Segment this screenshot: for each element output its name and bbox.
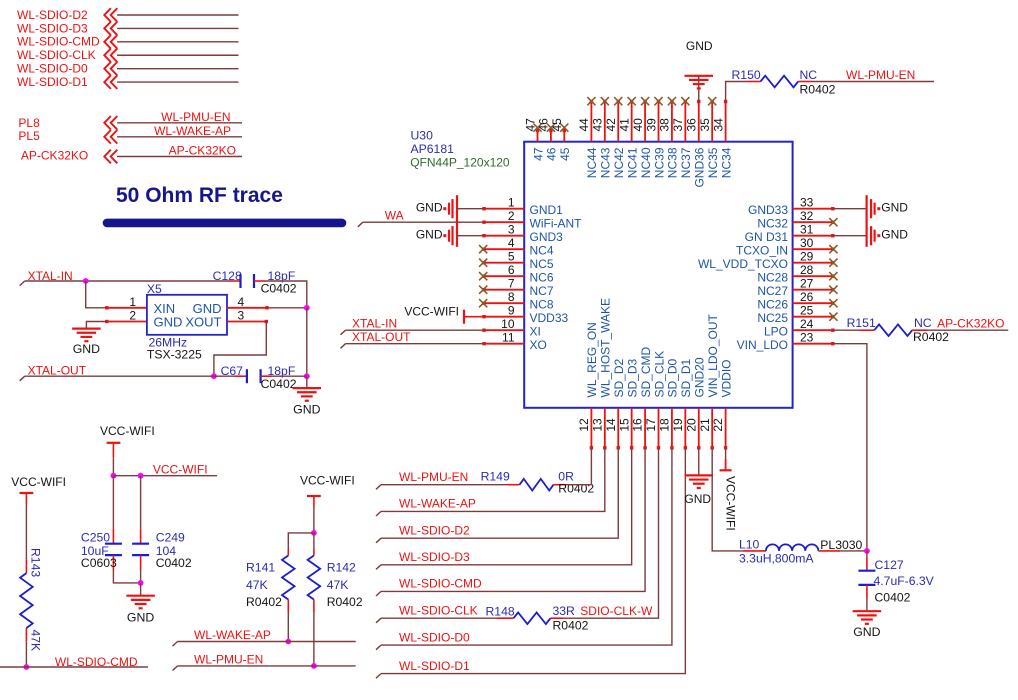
no-connect X on pin 42 [614, 97, 622, 105]
wire WA to pin 2 (WiFi-ANT) [358, 222, 363, 227]
off-page connector chevrons WL-SDIO-CLK [104, 48, 111, 62]
no-connect X on pin 6 [479, 272, 487, 280]
junction node VCC-WIFI / C249 [138, 473, 144, 479]
off-page connector chevrons WL-SDIO-D0 [104, 62, 111, 76]
junction node R141 / WL-WAKE-AP [285, 639, 291, 645]
svg-text:GND: GND [73, 342, 100, 356]
X5 pin 2 stub [107, 321, 147, 323]
svg-text:43: 43 [591, 118, 605, 132]
svg-text:NC: NC [914, 316, 932, 330]
power symbol VCC-WIFI (bar) [107, 442, 121, 444]
svg-text:35: 35 [698, 118, 712, 132]
junction node R141/R142 top [311, 530, 317, 536]
svg-text:19: 19 [671, 418, 685, 432]
svg-text:WL-SDIO-D1: WL-SDIO-D1 [17, 75, 88, 89]
svg-text:NC35: NC35 [706, 147, 720, 178]
U30 pin 2 WiFi-ANT stub [484, 221, 524, 223]
wire pin 20 to ground [698, 448, 700, 476]
off-page connector chevrons WL-SDIO-D1 [104, 75, 111, 89]
svg-text:40: 40 [631, 118, 645, 132]
svg-text:VCC-WIFI: VCC-WIFI [724, 476, 738, 531]
wire R142 to WL-PMU-EN [313, 612, 315, 666]
svg-text:22: 22 [711, 418, 725, 432]
ground symbol at X5 pin 2 [72, 328, 101, 330]
svg-text:WL-SDIO-D1: WL-SDIO-D1 [399, 659, 470, 673]
U30 pin 43 NC43 stub [604, 102, 606, 142]
svg-text:47K: 47K [29, 630, 43, 652]
wire WL-SDIO-D0 to U30 [376, 645, 381, 650]
resistor R148 [497, 617, 514, 619]
wire pin 24 to R151 [833, 329, 860, 331]
svg-text:WL_REG_ON: WL_REG_ON [585, 322, 599, 397]
svg-text:3: 3 [508, 223, 515, 237]
U30 pin 11 XO stub [484, 343, 524, 345]
U30 pin 26 NC26 stub [793, 302, 833, 304]
wire WL-WAKE-AP from PL5 [117, 136, 242, 138]
no-connect X on pin 44 [587, 97, 595, 105]
svg-text:3.3uH,800mA: 3.3uH,800mA [739, 551, 814, 565]
svg-text:23: 23 [800, 331, 814, 345]
svg-text:C0402: C0402 [261, 377, 297, 391]
U30 pin 28 NC28 stub [793, 275, 833, 277]
wire power down to junction [112, 457, 114, 476]
X5 pin 1 stub [107, 307, 147, 309]
no-connect X on pin 7 [479, 286, 487, 294]
U30 pin 13 WL_HOST_WAKE stub [604, 408, 606, 448]
junction node XTAL-OUT / pin3 [211, 373, 217, 379]
svg-text:29: 29 [800, 250, 814, 264]
no-connect X on pin 39 [654, 97, 662, 105]
svg-text:WL_VDD_TCXO: WL_VDD_TCXO [698, 257, 788, 271]
junction node XTAL-IN [83, 278, 89, 284]
wire AP-CK32KO [117, 156, 242, 158]
svg-text:24: 24 [800, 317, 814, 331]
ground symbol below C67 rail [293, 387, 322, 389]
wire WL-SDIO-D2 to U30 [376, 538, 381, 543]
svg-text:1: 1 [129, 295, 136, 309]
svg-text:C0402: C0402 [875, 590, 911, 604]
U30 pin 25 NC25 stub [793, 316, 833, 318]
capacitor C250 [112, 476, 114, 529]
U30 pin 19 SD_D1 stub [684, 408, 686, 448]
svg-text:NC39: NC39 [652, 147, 666, 178]
svg-text:12: 12 [577, 418, 591, 432]
no-connect X on pin 5 [479, 259, 487, 267]
resistor R142 [313, 533, 315, 549]
svg-text:WiFi-ANT: WiFi-ANT [530, 217, 583, 231]
svg-text:WL-PMU-EN: WL-PMU-EN [846, 68, 915, 82]
power symbol VCC-WIFI at pin 22 [720, 469, 732, 471]
U30 pin 37 NC37 stub [684, 102, 686, 142]
no-connect X on pin 30 [829, 245, 837, 253]
svg-text:WL-WAKE-AP: WL-WAKE-AP [154, 124, 231, 138]
wire XTAL-IN horizontal [20, 281, 25, 286]
no-connect X on pin 43 [601, 97, 609, 105]
svg-text:2: 2 [508, 209, 515, 223]
no-connect X on pin 32 [829, 218, 837, 226]
wire WL-SDIO-CMD [117, 41, 238, 43]
svg-text:50 Ohm RF trace: 50 Ohm RF trace [116, 184, 283, 207]
svg-text:GND3: GND3 [530, 230, 564, 244]
svg-text:R149: R149 [481, 470, 510, 484]
no-connect X on pin 45 [560, 124, 568, 132]
svg-text:NC38: NC38 [666, 147, 680, 178]
svg-text:47K: 47K [327, 578, 349, 592]
shield ground symbol at pins 1 and 3 [456, 195, 458, 247]
wire to ground [140, 583, 142, 596]
wire XTAL-IN to pin 10 [341, 330, 346, 335]
wire R150 to WL-PMU-EN [812, 81, 934, 83]
svg-text:VCC-WIFI: VCC-WIFI [11, 475, 66, 489]
svg-text:XTAL-IN: XTAL-IN [352, 316, 397, 330]
svg-text:VIN_LDO_OUT: VIN_LDO_OUT [706, 313, 720, 397]
svg-text:PL5: PL5 [18, 129, 40, 143]
wire from XTAL-IN junction down to X5 pin 1 [86, 281, 107, 308]
U30 pin 12 WL_REG_ON stub [590, 408, 592, 448]
svg-text:14: 14 [604, 418, 618, 432]
svg-text:R148: R148 [486, 604, 515, 618]
U30 pin 36 GND36 stub [698, 102, 700, 142]
svg-text:10: 10 [501, 317, 515, 331]
U30 pin 34 NC34 stub [725, 102, 727, 142]
svg-text:VCC-WIFI: VCC-WIFI [153, 463, 208, 477]
svg-text:AP-CK32KO: AP-CK32KO [169, 144, 236, 158]
svg-text:R0402: R0402 [553, 618, 589, 632]
wire pin 23 to VIN rail [833, 344, 867, 551]
svg-text:NC6: NC6 [530, 271, 554, 285]
U30 pin 22 VDDIO stub [725, 408, 727, 448]
wire XTAL-OUT horizontal [20, 376, 25, 381]
svg-text:WL-PMU-EN: WL-PMU-EN [161, 110, 230, 124]
svg-text:NC41: NC41 [625, 147, 639, 178]
U30 pin 45 stub [563, 131, 565, 142]
wire WL-SDIO-CLK [117, 54, 238, 56]
svg-text:16: 16 [631, 418, 645, 432]
wire R148 to pin 17 [564, 448, 659, 618]
no-connect X on pin 8 [479, 299, 487, 307]
svg-text:NC5: NC5 [530, 257, 554, 271]
U30 pin 46 stub [550, 131, 552, 142]
svg-text:NC34: NC34 [719, 147, 733, 178]
svg-text:WL-PMU-EN: WL-PMU-EN [194, 653, 263, 667]
svg-text:WL-WAKE-AP: WL-WAKE-AP [399, 497, 476, 511]
U30 pin 9 VDD33 stub [484, 316, 524, 318]
svg-text:15: 15 [617, 418, 631, 432]
IC U30 body [524, 142, 792, 408]
U30 pin 35 NC35 stub [711, 102, 713, 142]
wire junction to R141 [288, 533, 314, 549]
U30 pin 15 SD_D3 stub [631, 408, 633, 448]
svg-text:C128: C128 [213, 269, 242, 283]
svg-text:XI: XI [530, 325, 541, 339]
svg-text:GND: GND [416, 227, 443, 241]
wire WL-WAKE-AP to U30 [376, 511, 381, 516]
svg-text:GND: GND [686, 39, 713, 53]
svg-text:R151: R151 [847, 316, 876, 330]
svg-text:NC37: NC37 [679, 147, 693, 178]
wire R149 to pin 12 [566, 448, 591, 485]
svg-text:WL-WAKE-AP: WL-WAKE-AP [194, 628, 271, 642]
svg-text:C127: C127 [875, 558, 904, 572]
svg-text:NC8: NC8 [530, 298, 554, 312]
svg-text:45: 45 [550, 118, 564, 132]
svg-text:U30: U30 [411, 129, 434, 143]
X5 pin 4 stub [227, 307, 267, 309]
U30 pin 47 stub [537, 131, 539, 142]
svg-text:R0402: R0402 [246, 595, 282, 609]
svg-text:LPO: LPO [764, 325, 788, 339]
svg-text:NC28: NC28 [757, 271, 788, 285]
junction node pin4 rail [304, 305, 310, 311]
ground symbol below C127 [853, 610, 882, 612]
svg-text:C249: C249 [156, 531, 185, 545]
svg-text:GND: GND [853, 625, 880, 639]
svg-text:GND: GND [881, 227, 908, 241]
svg-text:13: 13 [590, 418, 604, 432]
svg-text:WL-SDIO-CMD: WL-SDIO-CMD [55, 655, 138, 669]
svg-text:25: 25 [800, 304, 814, 318]
wire WL-SDIO-CMD to U30 [376, 591, 381, 596]
wire WL-WAKE-AP (left segment) [173, 642, 178, 647]
wire power to R143 [25, 505, 27, 560]
wire pin 1 to shield ground [457, 208, 484, 210]
U30 pin 10 XI stub [484, 329, 524, 331]
off-page connector chevrons WL-SDIO-D3 [104, 22, 111, 36]
U30 pin 21 VIN_LDO_OUT stub [711, 408, 713, 448]
svg-text:47: 47 [523, 118, 537, 132]
no-connect X on pin 29 [829, 259, 837, 267]
U30 pin 29 WL_VDD_TCXO stub [793, 262, 833, 264]
svg-text:47K: 47K [246, 578, 268, 592]
svg-text:31: 31 [800, 223, 814, 237]
svg-text:42: 42 [604, 118, 618, 132]
svg-text:GND: GND [127, 611, 154, 625]
svg-text:20: 20 [684, 418, 698, 432]
wire pin 21 down to L10 [712, 448, 743, 551]
U30 pin 16 SD_CMD stub [644, 408, 646, 448]
wire vertical rail pin4 to C67 node [306, 308, 308, 376]
svg-text:VDDIO: VDDIO [719, 359, 733, 397]
svg-text:WL-SDIO-CLK: WL-SDIO-CLK [399, 604, 478, 618]
svg-text:GND: GND [416, 200, 443, 214]
U30 pin 6 NC6 stub [484, 275, 524, 277]
svg-text:NC42: NC42 [612, 147, 626, 178]
svg-text:33R: 33R [553, 604, 576, 618]
no-connect X on pin 38 [668, 97, 676, 105]
no-connect X on pin 35 [708, 97, 716, 105]
wire pin 33 to shield ground [833, 208, 867, 210]
wire pin 22 to power [725, 448, 727, 459]
svg-text:47: 47 [531, 147, 545, 161]
svg-text:C250: C250 [81, 531, 110, 545]
svg-text:NC40: NC40 [639, 147, 653, 178]
svg-text:R141: R141 [246, 561, 275, 575]
svg-text:VDD33: VDD33 [530, 311, 569, 325]
svg-text:38: 38 [658, 118, 672, 132]
wire XTAL-OUT to pin 11 [341, 344, 346, 349]
wire WL-SDIO-D0 [117, 68, 238, 70]
svg-text:WL-SDIO-CMD: WL-SDIO-CMD [399, 577, 482, 591]
svg-text:VCC-WIFI: VCC-WIFI [100, 424, 155, 438]
svg-text:AP-CK32KO: AP-CK32KO [937, 316, 1004, 330]
svg-text:GND20: GND20 [693, 357, 707, 397]
wire WL-SDIO-D3 [117, 27, 238, 29]
wire pin 34 up to R150 [726, 82, 746, 102]
svg-text:SDIO-CLK-W: SDIO-CLK-W [580, 604, 653, 618]
svg-text:X5: X5 [147, 282, 162, 296]
svg-text:SD_D0: SD_D0 [666, 358, 680, 397]
svg-text:VCC-WIFI: VCC-WIFI [300, 473, 355, 487]
U30 pin 39 NC39 stub [658, 102, 660, 142]
U30 pin 30 TCXO_IN stub [793, 248, 833, 250]
wire WL-PMU-EN (left segment) [173, 666, 178, 671]
svg-text:18: 18 [658, 418, 672, 432]
svg-text:C67: C67 [221, 364, 244, 378]
svg-text:L10: L10 [739, 537, 760, 551]
wire pin 31 to shield ground [833, 235, 867, 237]
junction node R143 / WL-SDIO-CMD [24, 664, 30, 670]
svg-text:WL-SDIO-D0: WL-SDIO-D0 [17, 62, 88, 76]
svg-text:GN D31: GN D31 [745, 230, 789, 244]
svg-text:SD_D2: SD_D2 [612, 358, 626, 397]
svg-text:R0402: R0402 [327, 595, 363, 609]
svg-text:NC44: NC44 [585, 147, 599, 178]
svg-text:17: 17 [644, 418, 658, 432]
off-page connector chevrons PL8 [104, 116, 111, 130]
off-page connector chevrons AP-CK32KO [104, 150, 111, 164]
svg-text:C0603: C0603 [81, 556, 117, 570]
U30 pin 14 SD_D2 stub [617, 408, 619, 448]
no-connect X on pin 46 [547, 124, 555, 132]
wire WL-PMU-EN left part [376, 485, 381, 490]
power symbol VCC-WIFI R143 [20, 492, 34, 494]
wire R141 to WL-WAKE-AP [287, 612, 289, 642]
ground symbol below C250/C249 [126, 595, 155, 597]
wire VCC-WIFI horizontal [113, 475, 217, 477]
svg-text:46: 46 [545, 147, 559, 161]
U30 pin 41 NC41 stub [631, 102, 633, 142]
svg-text:30: 30 [800, 236, 814, 250]
U30 pin 33 GND33 stub [793, 208, 833, 210]
resistor R150 [746, 81, 761, 83]
svg-text:8: 8 [508, 290, 515, 304]
svg-text:C0402: C0402 [261, 282, 297, 296]
svg-text:1: 1 [508, 196, 515, 210]
wire R151 to AP-CK32KO [928, 329, 1008, 331]
svg-text:21: 21 [698, 418, 712, 432]
svg-text:GND: GND [881, 200, 908, 214]
svg-text:R0402: R0402 [913, 330, 949, 344]
svg-text:QFN44P_120x120: QFN44P_120x120 [410, 156, 510, 170]
no-connect X on pin 37 [681, 97, 689, 105]
capacitor C128 [229, 280, 241, 282]
ground symbol below pin 20 [685, 474, 714, 476]
resistor R149 [507, 484, 520, 486]
no-connect X on pin 27 [829, 286, 837, 294]
no-connect X on pin 40 [641, 97, 649, 105]
svg-text:NC26: NC26 [757, 298, 788, 312]
U30 pin 7 NC7 stub [484, 289, 524, 291]
resistor R151 [860, 329, 875, 331]
svg-text:GND: GND [293, 403, 320, 417]
wire X5 pin 4 to C128 net [267, 307, 307, 309]
svg-text:WL-SDIO-CMD: WL-SDIO-CMD [17, 35, 100, 49]
svg-text:WL-SDIO-D2: WL-SDIO-D2 [17, 8, 88, 22]
svg-text:NC43: NC43 [599, 147, 613, 178]
U30 pin 38 NC38 stub [671, 102, 673, 142]
no-connect X on pin 26 [829, 299, 837, 307]
svg-text:R0402: R0402 [800, 82, 836, 96]
U30 pin 23 VIN_LDO stub [793, 343, 833, 345]
svg-text:NC32: NC32 [757, 217, 788, 231]
wire WL-PMU-EN from PL8 [117, 122, 242, 124]
wire R143 to WL-SDIO-CMD [25, 642, 27, 667]
wire WL-SDIO-D1 [117, 81, 238, 83]
wire X5 pin 3 down to XTAL-OUT [214, 322, 266, 377]
svg-text:11: 11 [502, 331, 515, 345]
wire WL-SDIO-D1 to U30 [376, 674, 381, 679]
svg-text:GND: GND [684, 492, 711, 506]
power symbol VCC-WIFI R141/R142 [307, 495, 321, 497]
U30 pin 42 NC42 stub [617, 102, 619, 142]
svg-text:XO: XO [530, 338, 547, 352]
svg-text:R143: R143 [29, 548, 43, 577]
svg-text:36: 36 [685, 118, 699, 132]
capacitor C127 [866, 551, 868, 557]
U30 pin 44 NC44 stub [590, 102, 592, 142]
svg-text:AP-CK32KO: AP-CK32KO [21, 148, 88, 162]
svg-text:2: 2 [129, 309, 136, 323]
svg-text:VCC-WIFI: VCC-WIFI [404, 305, 459, 319]
svg-text:39: 39 [644, 118, 658, 132]
svg-text:5: 5 [508, 250, 515, 264]
svg-text:32: 32 [800, 209, 814, 223]
svg-text:37: 37 [671, 118, 685, 132]
svg-text:R0402: R0402 [558, 481, 594, 495]
svg-text:4.7uF-6.3V: 4.7uF-6.3V [874, 574, 935, 588]
X5 pin 3 stub [227, 321, 266, 323]
power symbol VCC-WIFI at pin 9 [463, 310, 465, 324]
resistor R143 [25, 559, 27, 573]
svg-text:9: 9 [508, 304, 515, 318]
U30 pin 18 SD_D0 stub [671, 408, 673, 448]
svg-text:7: 7 [508, 277, 515, 291]
svg-text:SD_CLK: SD_CLK [652, 351, 666, 398]
no-connect X on pin 4 [479, 245, 487, 253]
U30 pin 5 NC5 stub [484, 262, 524, 264]
U30 pin 24 LPO stub [793, 329, 833, 331]
svg-text:GND1: GND1 [530, 203, 564, 217]
svg-text:AP6181: AP6181 [411, 142, 455, 156]
svg-text:SD_CMD: SD_CMD [639, 346, 653, 397]
svg-text:TCXO_IN: TCXO_IN [736, 244, 788, 258]
wire WL-SDIO-CMD (bottom left) [0, 666, 148, 668]
svg-text:XTAL-OUT: XTAL-OUT [28, 363, 87, 377]
junction node R142 / WL-PMU-EN [311, 663, 317, 669]
wire C128 right to vertical rail [266, 281, 307, 308]
svg-text:41: 41 [617, 118, 631, 132]
svg-text:C0402: C0402 [156, 556, 192, 570]
junction node VIN_LDO rail [864, 548, 870, 554]
svg-text:WL_HOST_WAKE: WL_HOST_WAKE [599, 298, 613, 398]
off-page connector chevrons PL5 [104, 130, 111, 144]
svg-text:4: 4 [508, 236, 515, 250]
svg-text:28: 28 [800, 263, 814, 277]
svg-text:NC4: NC4 [530, 244, 554, 258]
svg-text:WL-SDIO-CLK: WL-SDIO-CLK [17, 48, 96, 62]
wire pin 36 up to ground [698, 76, 700, 102]
shield ground symbol at pins 33 and 31 [865, 195, 867, 247]
